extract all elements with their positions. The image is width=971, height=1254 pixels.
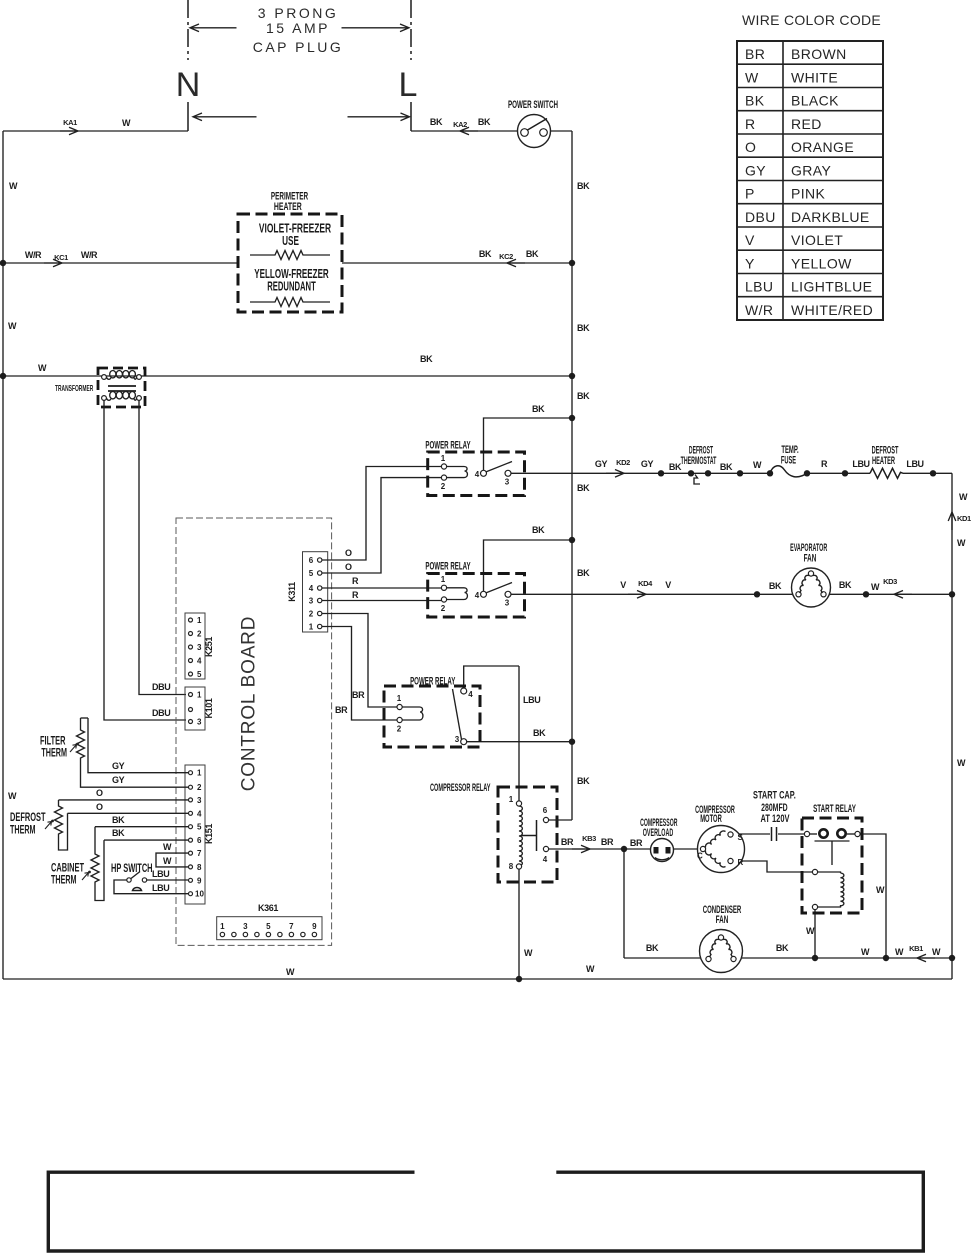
right border wire W [951,473,953,979]
node [812,955,818,961]
defrost therm t arrow [45,820,54,829]
connector K101 [185,687,205,730]
svg-text:KB1: KB1 [909,944,923,953]
svg-text:BK: BK [533,728,546,738]
label HP SWITCH [111,862,153,875]
svg-text:KD1: KD1 [957,514,971,523]
svg-text:BR: BR [601,837,614,847]
svg-text:W: W [586,964,595,974]
svg-text:BK: BK [720,462,733,472]
label START CAP. 280MFD AT 120V [753,789,796,801]
svg-text:O: O [96,802,103,812]
label COMPRESSOR OVERLOAD [640,816,678,829]
svg-text:R: R [352,590,359,600]
start capacitor C1 [772,827,777,841]
label EVAPORATOR FAN [790,541,828,554]
LBU line down to compressor relay [518,666,520,801]
svg-text:YELLOW: YELLOW [791,255,852,271]
transformer lead to K101 pin3 [104,400,186,720]
wire motor S to start cap [733,833,770,835]
svg-text:W: W [8,791,17,801]
arrow on KA2 wire [460,127,478,135]
wire BR junction down to condenser row [623,849,625,958]
svg-text:O: O [745,139,756,155]
compressor relay coil [509,795,523,871]
defrost thermistor RT2 [55,800,189,850]
svg-text:BK: BK [112,828,125,838]
svg-text:3: 3 [505,599,510,608]
plug prong lead L (dashed) [410,0,412,60]
node junction right bottom [949,955,955,961]
svg-text:3: 3 [505,478,510,487]
svg-text:BK: BK [478,117,491,127]
svg-text:PINK: PINK [791,186,826,202]
connector K151 [185,765,205,904]
arrow KD4 [628,591,646,599]
svg-text:2: 2 [309,610,314,619]
label FILTER THERM [40,735,65,748]
perimeter heater row wire W/R [3,262,572,264]
svg-text:W: W [753,460,762,470]
svg-text:1: 1 [441,454,446,463]
svg-text:USE: USE [282,234,299,248]
svg-text:4: 4 [543,855,548,864]
riser wire bus to power relay2 pin4 [484,540,573,592]
svg-text:Y: Y [745,255,755,271]
wire K311 pin6 to relay1 pin1 [334,467,442,561]
svg-text:W: W [957,538,966,548]
relay2 switch [475,583,512,608]
svg-text:W: W [957,758,966,768]
svg-text:W: W [286,967,295,977]
svg-text:BK: BK [745,93,765,109]
svg-text:FAN: FAN [716,913,729,925]
LBU line through compressor relay to bottom [518,869,520,979]
svg-text:KD3: KD3 [883,577,897,586]
svg-text:POWER RELAY: POWER RELAY [410,675,455,687]
node [754,591,760,597]
svg-text:O: O [345,548,352,558]
svg-text:DBU: DBU [745,209,776,225]
svg-text:4: 4 [468,690,473,699]
svg-text:3: 3 [455,735,460,744]
svg-text:BR: BR [335,705,348,715]
svg-text:3: 3 [243,922,248,931]
node junction LBU bottom [516,976,522,982]
wire K311 pin2 to relay3 pin1 [334,614,397,708]
connector K311 [303,552,335,632]
power switch SW1 [518,115,551,148]
svg-text:1: 1 [197,691,202,700]
label COMPRESSOR MOTOR [695,803,735,816]
svg-text:LBU: LBU [152,883,169,893]
label CONDENSER FAN [703,903,742,915]
svg-text:7: 7 [197,849,202,858]
perimeter heater box [238,214,342,312]
svg-text:WIRE COLOR CODE: WIRE COLOR CODE [742,12,881,28]
cabinet therm t arrow [82,871,91,880]
svg-text:BR: BR [745,46,765,62]
svg-text:LBU: LBU [523,695,540,705]
svg-text:7: 7 [289,922,294,931]
svg-text:BK: BK [420,354,433,364]
defrost circuit wire from relay1 pin3 [511,472,953,474]
svg-text:HP SWITCH: HP SWITCH [111,862,153,875]
wire K311 pin1 to relay3 pin2 [334,627,397,721]
svg-text:4: 4 [475,470,480,479]
transformer row wire W [3,375,572,377]
node [658,470,664,476]
svg-text:BK: BK [577,568,590,578]
svg-text:W: W [8,321,17,331]
wire relay3 pin3 to bus [466,741,572,743]
node [842,470,848,476]
start relay coil [812,869,843,909]
svg-text:THERM: THERM [51,874,77,887]
svg-text:2: 2 [397,725,402,734]
svg-text:W: W [871,582,880,592]
transformer secondary winding [102,392,142,401]
transformer T1 box [98,368,145,407]
wire start relay right pin to right drop [860,834,886,958]
svg-text:1: 1 [397,694,402,703]
svg-text:W: W [876,885,885,895]
svg-text:KB3: KB3 [582,834,596,843]
svg-text:W: W [163,856,172,866]
svg-text:3: 3 [197,643,202,652]
svg-text:BR: BR [352,690,365,700]
wire power switch to bus corner [550,130,572,132]
svg-text:LBU: LBU [152,869,169,879]
node junction bus perimeter row [569,260,575,266]
svg-text:W: W [806,926,815,936]
svg-text:2: 2 [441,482,446,491]
filter thermistor RT1 [77,718,189,787]
svg-text:3: 3 [197,796,202,805]
wire K311 pin4 to relay2 pin1 [334,587,442,589]
svg-text:KD4: KD4 [638,579,653,588]
compressor relay switch [521,806,549,864]
svg-text:OVERLOAD: OVERLOAD [643,826,674,839]
svg-text:START RELAY: START RELAY [813,802,856,814]
svg-text:POWER SWITCH: POWER SWITCH [508,98,558,110]
svg-text:GY: GY [112,761,125,771]
svg-text:5: 5 [309,569,314,578]
label POWER RELAY [425,560,470,572]
svg-text:9: 9 [197,876,202,885]
condenser fan M2 [700,930,743,973]
svg-text:KC1: KC1 [54,253,68,262]
label DEFROST THERM [10,811,46,824]
compressor overload OL1 [651,839,674,862]
node junction bus relay3 [569,739,575,745]
relay3 switch [453,688,474,745]
arrow KD2 [606,470,624,478]
wire K311 pin3 to relay2 pin2 [334,600,442,602]
compressor motor M1 [697,826,745,873]
relay2 coil and pins [441,575,468,613]
svg-text:1: 1 [220,922,225,931]
label 3 PRONG 15 AMP CAP PLUG [253,5,344,55]
svg-text:COMPRESSOR RELAY: COMPRESSOR RELAY [430,781,491,794]
svg-text:3: 3 [197,718,202,727]
svg-text:8: 8 [509,862,514,871]
svg-text:BR: BR [630,838,643,848]
svg-text:W: W [895,947,904,957]
svg-text:W: W [932,947,941,957]
arrow KC2 [507,259,525,267]
svg-text:KC2: KC2 [499,252,513,261]
power relay K3 box [384,686,480,747]
svg-text:V: V [620,580,626,590]
svg-text:BK: BK [112,815,125,825]
transformer primary winding [102,371,142,380]
label CABINET THERM [51,862,84,875]
wire HP switch to K151 pin10 [114,880,188,894]
svg-text:5: 5 [197,823,202,832]
svg-text:KA1: KA1 [63,118,77,127]
svg-text:POWER RELAY: POWER RELAY [425,439,470,451]
svg-text:BR: BR [561,837,574,847]
svg-text:K101: K101 [204,698,214,718]
label START RELAY [813,802,856,814]
filter therm t arrow [70,743,79,752]
lead below L [410,102,412,131]
label VIOLET-FREEZER USE [259,222,331,236]
arrow KC1 [44,259,62,267]
svg-text:4: 4 [197,809,202,818]
svg-text:GRAY: GRAY [791,162,831,178]
svg-text:W/R: W/R [745,302,773,318]
svg-text:1: 1 [197,769,202,778]
start relay box [802,818,862,913]
connector K361 [217,917,322,940]
HP switch S2 [127,872,147,891]
wire compressor relay pin6 to bus [549,819,573,821]
svg-text:DBU: DBU [152,708,170,718]
node [930,470,936,476]
left border wire (N side) [2,131,4,979]
svg-text:O: O [345,562,352,572]
svg-text:N: N [176,66,201,104]
cabinet thermistor RT3 [91,827,188,901]
svg-text:8: 8 [197,863,202,872]
svg-text:W: W [959,492,968,502]
svg-text:6: 6 [197,836,202,845]
svg-text:KD2: KD2 [616,458,630,467]
svg-text:MOTOR: MOTOR [700,812,722,824]
svg-text:V: V [665,580,671,590]
label DEFROST HEATER [872,443,899,456]
jumper K151 pins 7-8 [156,853,188,867]
arrow on KA1 wire [60,127,78,135]
svg-text:K361: K361 [258,903,278,913]
svg-text:9: 9 [312,922,317,931]
svg-text:6: 6 [309,556,314,565]
connector K251 [185,613,205,679]
svg-text:LBU: LBU [745,279,773,295]
wire start relay coil bottom down [814,910,816,959]
node junction BR [621,846,627,852]
svg-text:REDUNDANT: REDUNDANT [267,280,316,295]
svg-text:5: 5 [197,670,202,679]
relay1 coil and pins [441,454,468,491]
svg-text:LBU: LBU [852,459,869,469]
svg-text:1: 1 [309,623,314,632]
svg-text:W: W [163,842,172,852]
wire L to power switch [411,130,518,132]
svg-text:AT 120V: AT 120V [761,811,791,824]
bottom border wire [3,978,952,980]
wire color code table [737,41,883,320]
plug prong lead N (dashed) [187,0,189,60]
power relay K2 box [428,574,525,618]
svg-text:FUSE: FUSE [781,453,796,466]
svg-text:C: C [697,852,703,861]
svg-text:BK: BK [430,117,443,127]
svg-text:R: R [821,459,828,469]
heater resistor 2 [250,298,330,307]
svg-text:BLACK: BLACK [791,93,839,109]
arrow KD3 (left) [894,591,912,599]
wire N to left edge [3,130,188,132]
svg-text:W: W [524,948,533,958]
svg-text:FAN: FAN [804,552,817,564]
svg-text:LBU: LBU [906,459,923,469]
svg-text:1: 1 [441,575,446,584]
lead below N [187,102,189,131]
transformer core [108,386,136,391]
main bus wire BK (L side) [571,131,573,820]
svg-text:3 PRONG: 3 PRONG [258,5,339,21]
svg-text:CONTROL BOARD: CONTROL BOARD [239,616,260,791]
label TRANSFORMER [55,385,93,394]
node [863,591,869,597]
svg-text:POWER RELAY: POWER RELAY [425,560,470,572]
svg-text:BK: BK [577,391,590,401]
svg-text:GY: GY [745,162,766,178]
svg-text:6: 6 [543,806,548,815]
svg-text:5: 5 [266,922,271,931]
node [883,955,889,961]
svg-text:BK: BK [532,525,545,535]
label COMPRESSOR RELAY [430,781,491,794]
svg-text:K311: K311 [287,582,297,602]
svg-text:BK: BK [839,580,852,590]
svg-text:1: 1 [509,795,514,804]
relay3 coil and pins [397,694,423,734]
svg-text:2: 2 [441,604,446,613]
svg-text:BK: BK [577,776,590,786]
svg-text:KA2: KA2 [453,120,467,129]
transformer lead to K101 pin1 [139,400,186,694]
power relay K1 box [428,452,525,496]
svg-text:TRANSFORMER: TRANSFORMER [55,385,93,394]
svg-text:ORANGE: ORANGE [791,139,854,155]
svg-text:WHITE: WHITE [791,69,838,85]
svg-text:2: 2 [197,630,202,639]
svg-text:START CAP.: START CAP. [753,789,796,801]
svg-text:W/R: W/R [81,250,98,260]
wire motor R to start relay lower pin [733,861,813,872]
svg-text:BK: BK [769,581,782,591]
svg-text:THERM: THERM [41,747,67,760]
control board dashed outline [176,518,332,945]
riser wire bus to power relay1 pin4 [484,418,573,470]
svg-text:CAP PLUG: CAP PLUG [253,39,344,55]
svg-text:BK: BK [577,483,590,493]
svg-text:W: W [9,181,18,191]
svg-text:BROWN: BROWN [791,46,847,62]
wire overload to motor [674,848,698,850]
label POWER SWITCH [508,98,558,110]
svg-text:DBU: DBU [152,682,170,692]
node junction left perimeter row [0,260,6,266]
node junction bus riser1 [569,415,575,421]
node junction bus riser2 [569,537,575,543]
svg-text:15 AMP: 15 AMP [266,20,330,36]
svg-text:BK: BK [479,249,492,259]
svg-text:P: P [745,186,755,202]
svg-text:W: W [122,118,131,128]
svg-text:GY: GY [112,775,125,785]
heater resistor 1 [250,251,330,260]
svg-text:BK: BK [577,181,590,191]
wire K311 pin5 to relay1 pin2 [334,478,442,573]
svg-text:GY: GY [595,459,608,469]
defrost thermostat [688,470,711,484]
condenser circuit wire [624,957,952,959]
arrow KD1 (up) [948,512,956,530]
svg-text:K151: K151 [204,824,214,844]
compressor circuit wire BR from compressor relay pin4 [549,848,652,850]
label POWER RELAY [425,439,470,451]
svg-text:WHITE/RED: WHITE/RED [791,302,873,318]
svg-text:DARKBLUE: DARKBLUE [791,209,870,225]
svg-text:BK: BK [776,943,789,953]
svg-text:BK: BK [577,323,590,333]
wire relay3 pin4 up to LBU line [464,666,519,689]
dimension arrow at wire level [193,113,410,121]
label POWER RELAY [410,675,455,687]
svg-text:VIOLET: VIOLET [791,232,843,248]
label YELLOW-FREEZER REDUNDANT [254,267,329,281]
svg-text:GY: GY [641,459,654,469]
svg-text:W/R: W/R [25,250,42,260]
svg-text:W: W [861,947,870,957]
svg-text:THERMOSTAT: THERMOSTAT [681,454,717,467]
svg-text:O: O [96,788,103,798]
node junction bus transformer row [569,373,575,379]
svg-text:W: W [745,69,759,85]
relay1 switch [475,462,512,487]
svg-text:HEATER: HEATER [274,200,302,212]
node junction right evap row [949,591,955,597]
node [737,470,743,476]
wire start cap to start relay [778,833,805,835]
svg-text:R: R [745,116,756,132]
label DEFROST THERMOSTAT [689,443,714,456]
svg-text:L: L [399,66,418,104]
node junction left transformer row [0,373,6,379]
start relay contacts [804,829,860,865]
svg-text:3: 3 [309,597,314,606]
svg-text:BK: BK [669,462,682,472]
compressor relay box [498,787,557,882]
evaporator fan M3 [792,568,831,607]
svg-text:R: R [738,858,744,867]
label PERIMETER HEATER [271,190,309,202]
